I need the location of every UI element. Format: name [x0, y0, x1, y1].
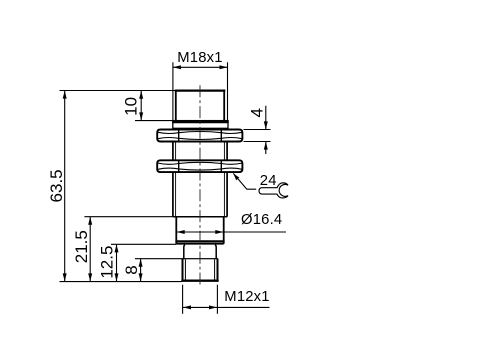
- svg-text:12.5: 12.5: [97, 246, 116, 279]
- svg-text:63.5: 63.5: [47, 169, 66, 202]
- svg-text:10: 10: [122, 97, 141, 116]
- svg-text:4: 4: [247, 108, 266, 117]
- svg-text:21.5: 21.5: [72, 230, 91, 263]
- svg-text:Ø16.4: Ø16.4: [241, 212, 282, 228]
- svg-text:24: 24: [260, 173, 277, 189]
- svg-text:8: 8: [122, 265, 141, 274]
- svg-text:M18x1: M18x1: [177, 50, 222, 66]
- svg-text:M12x1: M12x1: [224, 289, 269, 305]
